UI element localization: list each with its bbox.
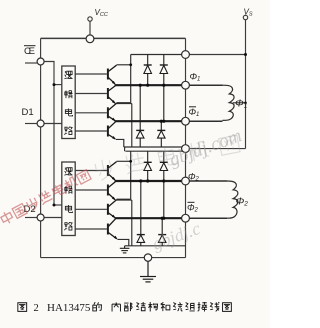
wire PHI1bar to coil (186, 120, 223, 122)
CE external stub (25, 62, 37, 64)
junction Vs rail wire (244, 53, 247, 56)
svg-text:gbjdj.c: gbjdj.c (150, 218, 203, 254)
svg-text:Φ2: Φ2 (187, 203, 199, 214)
transistor Q1 (108, 65, 117, 84)
lower diode D1d block1 (157, 121, 165, 147)
Vs terminal circle (243, 15, 247, 19)
Q3 collector wire (117, 102, 131, 104)
junction CE bus to box1 (53, 83, 56, 86)
pin PHI1bar (182, 117, 190, 125)
wire base Q5 (75, 170, 107, 172)
junction diode D1d on PHI1bar (160, 120, 163, 123)
junction diode D2b anode on PHI2bar (162, 217, 165, 220)
D2 wire into box2 (44, 217, 62, 219)
phase line PHI2bar (115, 217, 186, 219)
pin Vcc (86, 35, 94, 43)
rail top block2 (125, 150, 185, 152)
collector bus block1 (130, 55, 132, 103)
Vcc terminal stub (89, 21, 91, 36)
svg-text:CE: CE (24, 46, 35, 57)
phase line PHI2 (115, 180, 186, 182)
Q8 emitter wire (118, 239, 129, 245)
transistor Q4 (108, 122, 116, 139)
pin GND (144, 254, 151, 261)
upper diode D1a block1 (144, 55, 152, 86)
transistor Q3 (108, 103, 117, 120)
IC outline right edge (185, 38, 187, 257)
transistor Q8 (108, 219, 117, 239)
logic box 1 (62, 66, 75, 139)
wire base Q2 (75, 93, 107, 95)
wire PHI2 to coil (186, 180, 228, 182)
junction diode D2a anode on PHI2 (146, 179, 149, 182)
wire PHI2bar to coil (186, 217, 228, 219)
phase line PHI1bar (115, 120, 186, 122)
coil 1 centre tap (233, 102, 246, 104)
junction diode D2d on PHI2bar (161, 217, 164, 220)
logic box 2 (62, 162, 75, 236)
junction diode D1a anode on PHI1 (146, 84, 149, 87)
Q6 emitter wire (116, 199, 132, 201)
Q2 emitter wire (116, 103, 132, 105)
lower diode D2c block2 (137, 181, 145, 246)
rail bottom block2 (125, 245, 186, 247)
red watermark (0, 169, 92, 226)
junction Vs coil tap (244, 102, 247, 105)
winding coil 1 (223, 85, 235, 120)
pin diode-common 2 (182, 145, 190, 153)
pin PHI1 (182, 81, 190, 89)
svg-text:Φ1: Φ1 (190, 72, 201, 83)
Q1 collector wire (117, 64, 131, 66)
Q6 emitter drop (131, 200, 133, 246)
lower diode D2d block2 (158, 218, 166, 246)
IC outline bottom edge (41, 257, 186, 259)
wire base Q8 (75, 228, 107, 230)
Q2 emitter drop (131, 104, 133, 148)
transistor Q7 (108, 200, 117, 218)
pin D1 (37, 120, 44, 127)
Vcc terminal circle (88, 17, 92, 21)
svg-text:Φ1: Φ1 (189, 107, 200, 118)
logic bus continues down (53, 85, 55, 205)
junction diode D1b anode on PHI1bar (162, 120, 165, 123)
external wires phase outputs (186, 85, 228, 218)
rail top block1 (131, 54, 186, 56)
svg-text:D1: D1 (22, 107, 34, 118)
logic bus feed box2 (54, 204, 62, 206)
rail jog to block2 (124, 147, 126, 151)
svg-text:Φ2: Φ2 (188, 172, 200, 183)
junction CE bus to box2 (53, 204, 56, 207)
logic box 2 characters (64, 167, 72, 230)
upper diode D2b block2 (160, 151, 168, 218)
rail bottom block1 (124, 146, 186, 148)
logic bus feed box1 (54, 84, 62, 86)
wire base Q7 (75, 208, 107, 210)
wire PHI1 to coil (186, 84, 223, 86)
transistor Q6 (108, 182, 116, 200)
junction Q1 collector on bus (129, 63, 132, 66)
caption (18, 303, 27, 312)
wire base Q6 (75, 189, 107, 191)
lower diode D1c block1 (136, 85, 144, 147)
D2 external stub (25, 217, 37, 219)
internal ground symbol (120, 246, 130, 253)
Q4 emitter wire (116, 139, 124, 147)
svg-text:Φ2: Φ2 (236, 196, 249, 208)
svg-text:gbjdj.com: gbjdj.com (167, 125, 245, 171)
wire pin4 to Vs bottom (186, 148, 246, 150)
logic box 1 characters (64, 71, 72, 135)
junction diode D2c on PHI2 (139, 179, 142, 182)
collector bus block2 (130, 151, 132, 199)
GND pin drop and ground (140, 261, 156, 282)
D1 wire into box1 (44, 123, 62, 125)
wire pin1 to Vs (186, 54, 246, 56)
junction diode D2b on PHI2 (162, 179, 165, 182)
upper diode D1b block1 (160, 55, 168, 122)
D1 external stub (25, 123, 37, 125)
Vs vertical line (245, 55, 247, 149)
pin circles on outline (37, 35, 189, 261)
wire base Q3 (75, 112, 107, 114)
phase line PHI1 (115, 84, 186, 86)
gray hollow watermark (93, 134, 240, 182)
Vs terminal stub (245, 20, 247, 55)
wire base Q4 (75, 130, 107, 132)
pin diode-common 1 (182, 51, 190, 59)
pin PHI2 (182, 177, 190, 185)
transistor Q2 (108, 86, 116, 104)
wire base Q1 (75, 73, 107, 75)
Q7 collector wire (117, 198, 131, 200)
svg-text:2: 2 (34, 303, 39, 314)
svg-text:HA13475: HA13475 (47, 302, 91, 314)
junction Q5 collector on bus (129, 160, 132, 163)
winding coil 2 (227, 181, 238, 218)
IC outline top edge (41, 37, 186, 39)
pin D2 (37, 214, 44, 221)
transistor Q5 (108, 162, 117, 180)
junction diode D1b on PHI1 (162, 84, 165, 87)
IC outline left edge (40, 38, 42, 257)
svg-text:VS: VS (244, 8, 253, 18)
pin PHI2bar (182, 214, 190, 222)
Q5 collector wire (117, 160, 131, 162)
upper diode D2a block2 (144, 151, 152, 181)
junction diode D1c on PHI1 (139, 84, 142, 87)
CE internal wire to logic bus (44, 62, 54, 85)
pin CE (37, 58, 44, 65)
svg-text:VCC: VCC (95, 8, 108, 18)
